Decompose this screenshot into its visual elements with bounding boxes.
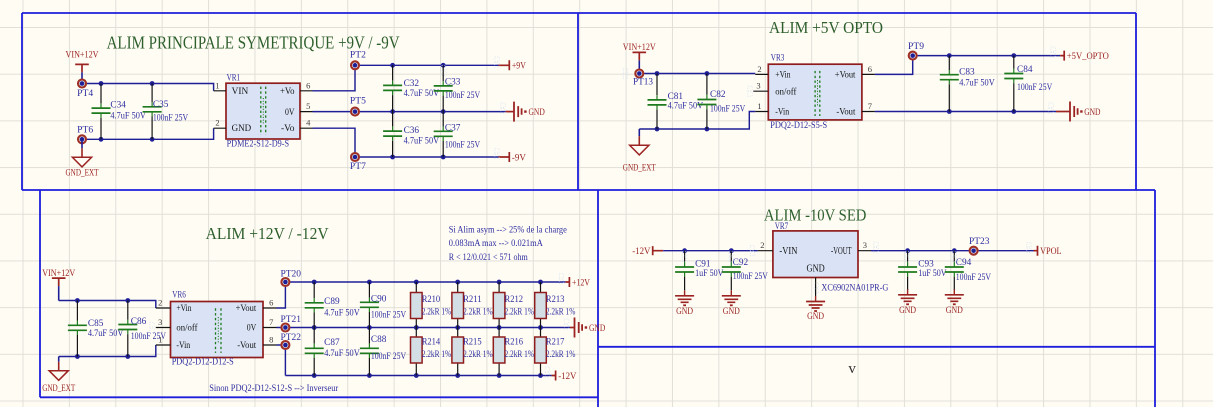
svg-text:+Vin: +Vin	[775, 70, 791, 80]
junction	[75, 298, 80, 303]
svg-text:GND_EXT: GND_EXT	[623, 162, 656, 172]
wire VR1 +Vo to PT2 / +9V rail	[313, 65, 499, 91]
junction	[414, 325, 419, 330]
capacitor C90	[360, 282, 407, 328]
capacitor C85	[68, 301, 124, 357]
junction	[1011, 109, 1016, 114]
capacitor C34	[92, 84, 147, 140]
capacitor C35	[143, 84, 189, 140]
svg-text:+12V: +12V	[572, 277, 590, 287]
svg-text:2.2kR 1%: 2.2kR 1%	[505, 349, 535, 359]
no-ERC mark	[495, 149, 499, 159]
svg-text:100nF 25V: 100nF 25V	[1017, 82, 1053, 92]
test point PT23	[969, 236, 990, 255]
svg-text:100nF 25V: 100nF 25V	[956, 272, 992, 282]
capacitor C84	[1004, 56, 1052, 112]
wire VR7 -VOUT to PT23 / VPOL rail	[871, 250, 1034, 252]
svg-text:3: 3	[158, 317, 162, 327]
svg-text:GND: GND	[807, 263, 825, 274]
test point PT6	[77, 124, 94, 143]
no-ERC mark	[750, 246, 754, 256]
resistor R210	[411, 282, 452, 328]
svg-text:VR1: VR1	[227, 73, 241, 83]
regulator VR6	[156, 289, 277, 366]
wire -12V to VR7 pin 2	[663, 250, 758, 252]
svg-text:4: 4	[306, 118, 311, 128]
svg-text:100nF 25V: 100nF 25V	[371, 310, 407, 320]
svg-text:GND: GND	[232, 124, 252, 134]
svg-text:PT13: PT13	[633, 77, 653, 87]
svg-text:R213: R213	[546, 294, 565, 304]
junction	[655, 71, 660, 76]
junction	[390, 63, 395, 68]
resistor R213	[535, 282, 576, 328]
svg-text:GND: GND	[1084, 107, 1101, 117]
power port -9V	[499, 152, 527, 162]
ground GND (bar symbol)	[1056, 102, 1101, 122]
test point PT5	[350, 96, 367, 116]
svg-text:1: 1	[757, 101, 761, 111]
svg-text:C33: C33	[445, 76, 461, 86]
capacitor C87	[305, 328, 360, 376]
regulator VR3	[753, 53, 875, 131]
ground GND (earth symbol)	[898, 289, 917, 315]
svg-text:100nF 25V: 100nF 25V	[445, 140, 481, 150]
ground GND_EXT	[623, 129, 656, 172]
svg-text:C87: C87	[324, 337, 340, 347]
no-ERC mark	[814, 283, 818, 293]
svg-text:4.7uF 50V: 4.7uF 50V	[324, 307, 360, 317]
svg-text:VIN+12V: VIN+12V	[623, 42, 656, 52]
no-ERC mark	[495, 57, 499, 67]
no-ERC mark	[874, 242, 878, 252]
no-ERC mark	[559, 274, 563, 284]
power port -12V	[632, 246, 663, 256]
junction	[729, 248, 734, 253]
no-ERC mark	[952, 252, 956, 262]
junction	[367, 373, 372, 378]
svg-text:C36: C36	[404, 125, 420, 135]
wire VR3 -Vout / GND rail	[875, 111, 1056, 113]
no-ERC mark	[1049, 103, 1053, 113]
no-ERC mark	[501, 103, 505, 113]
capacitor C86	[118, 301, 166, 357]
power port +9V	[499, 60, 527, 70]
no-ERC mark	[1027, 243, 1031, 253]
junction	[75, 354, 80, 359]
wire VR6 0V to PT21 / GND rail	[277, 327, 571, 329]
capacitor C36	[383, 112, 439, 157]
capacitor C37	[434, 112, 481, 157]
svg-text:C85: C85	[88, 318, 104, 328]
svg-text:4.7uF 50V: 4.7uF 50V	[404, 88, 440, 98]
svg-text:2.2kR 1%: 2.2kR 1%	[546, 307, 576, 317]
svg-text:PT9: PT9	[908, 41, 925, 51]
svg-text:2: 2	[158, 298, 162, 308]
svg-text:+Vo: +Vo	[280, 87, 295, 97]
svg-text:C92: C92	[733, 257, 749, 267]
svg-text:GND: GND	[946, 305, 963, 315]
svg-text:R216: R216	[505, 336, 524, 346]
power port VIN+12V	[623, 42, 656, 73]
junction	[455, 280, 460, 285]
svg-text:100nF 25V: 100nF 25V	[371, 351, 407, 361]
junction	[705, 71, 710, 76]
svg-text:XC6902NA01PR-G: XC6902NA01PR-G	[821, 283, 888, 293]
junction	[497, 280, 502, 285]
resistor R216	[493, 328, 534, 376]
svg-text:Sinon PDQ2-D12-S12-S --> Inver: Sinon PDQ2-D12-S12-S --> Inverseur	[209, 383, 338, 393]
svg-text:+5V_OPTO: +5V_OPTO	[1067, 51, 1109, 61]
svg-text:2.2kR 1%: 2.2kR 1%	[463, 307, 493, 317]
svg-text:100nF 25V: 100nF 25V	[733, 271, 769, 281]
wire bottom rail to VR3 pin 1	[639, 112, 755, 130]
power port VPOL	[1034, 246, 1062, 256]
svg-text:VR3: VR3	[771, 53, 785, 63]
svg-text:C32: C32	[404, 78, 420, 88]
svg-text:0.083mA max --> 0.021mA: 0.083mA max --> 0.021mA	[449, 238, 543, 248]
wire bottom rail PT6 to VR1 pin 2	[82, 128, 214, 139]
svg-text:C83: C83	[959, 66, 975, 76]
svg-text:-Vout: -Vout	[237, 340, 256, 350]
svg-text:2.2kR 1%: 2.2kR 1%	[505, 307, 535, 317]
capacitor C92	[722, 251, 769, 290]
svg-text:PT20: PT20	[281, 268, 302, 278]
svg-text:2: 2	[757, 64, 761, 74]
resistor R212	[493, 282, 534, 328]
svg-text:on/off: on/off	[775, 86, 797, 96]
svg-text:C90: C90	[371, 294, 387, 304]
no-ERC mark	[545, 367, 549, 377]
svg-text:GND: GND	[899, 305, 916, 315]
svg-text:100nF 25V: 100nF 25V	[153, 113, 189, 123]
svg-text:C34: C34	[110, 100, 126, 110]
no-ERC mark	[748, 86, 752, 96]
junction	[455, 325, 460, 330]
svg-text:PT7: PT7	[350, 161, 367, 171]
svg-text:1uF 50V: 1uF 50V	[695, 268, 724, 278]
resistor R214	[411, 328, 452, 376]
test point PT21	[281, 314, 302, 332]
no-ERC mark	[623, 69, 627, 79]
svg-text:C89: C89	[324, 296, 340, 306]
svg-text:GND: GND	[589, 323, 606, 333]
ground GND_EXT	[66, 139, 99, 177]
svg-text:PT5: PT5	[350, 96, 367, 106]
capacitor C33	[434, 65, 481, 111]
svg-text:6: 6	[868, 64, 872, 74]
svg-text:C82: C82	[710, 89, 726, 99]
capacitor C81	[648, 74, 704, 130]
junction	[947, 53, 952, 58]
capacitor C83	[940, 56, 995, 112]
svg-text:R214: R214	[422, 336, 441, 346]
svg-text:GND: GND	[529, 107, 546, 117]
svg-text:2: 2	[760, 240, 764, 250]
test point PT22	[281, 332, 302, 349]
svg-text:VIN+12V: VIN+12V	[66, 50, 99, 60]
svg-text:8: 8	[269, 335, 273, 345]
svg-text:VR7: VR7	[775, 221, 789, 231]
svg-text:R211: R211	[463, 294, 482, 304]
no-ERC mark	[150, 323, 154, 333]
junction	[312, 373, 317, 378]
capacitor C88	[360, 328, 407, 376]
svg-text:7: 7	[269, 317, 273, 327]
no-ERC mark	[905, 252, 909, 262]
capacitor C94	[945, 251, 992, 290]
test point PT7	[350, 153, 367, 171]
junction	[538, 280, 543, 285]
svg-text:-Vo: -Vo	[281, 124, 295, 134]
no-ERC mark	[682, 252, 686, 262]
svg-text:C86: C86	[131, 316, 147, 326]
svg-text:PT21: PT21	[281, 314, 302, 324]
svg-text:C94: C94	[956, 257, 972, 267]
power port -12V	[552, 371, 577, 381]
wire VR3 +Vout to PT9 / +5V_OPTO rail	[875, 56, 1060, 75]
svg-text:GND: GND	[807, 311, 824, 321]
svg-text:100nF 25V: 100nF 25V	[710, 103, 746, 113]
junction	[125, 354, 130, 359]
junction	[682, 248, 687, 253]
wire VR6 +Vout to PT20 / +12V rail	[277, 282, 566, 308]
svg-text:6: 6	[306, 80, 310, 90]
svg-text:2.2kR 1%: 2.2kR 1%	[422, 349, 452, 359]
resistor R217	[535, 328, 576, 376]
junction	[414, 373, 419, 378]
junction	[150, 137, 155, 142]
junction	[538, 325, 543, 330]
power port +5V_OPTO	[1060, 51, 1109, 61]
no-ERC mark	[442, 66, 446, 76]
test point PT20	[281, 268, 302, 286]
power port +12V	[565, 277, 590, 287]
junction	[655, 127, 660, 132]
capacitor C89	[305, 282, 360, 328]
svg-text:+9V: +9V	[512, 61, 526, 71]
test point PT9	[908, 41, 925, 60]
svg-text:PDME2-S12-D9-S: PDME2-S12-D9-S	[227, 138, 290, 148]
svg-text:5: 5	[306, 101, 310, 111]
junction	[455, 373, 460, 378]
junction	[367, 280, 372, 285]
svg-text:7: 7	[868, 101, 872, 111]
junction	[441, 109, 446, 114]
svg-text:v: v	[848, 361, 856, 377]
wire VIN+12V rail to VR3 pin 2	[639, 73, 755, 75]
svg-text:R217: R217	[546, 336, 565, 346]
resistor R211	[452, 282, 493, 328]
wire VIN+12V rail to VR1 pin 1	[82, 84, 214, 91]
junction	[99, 81, 104, 86]
test point PT4	[77, 80, 94, 99]
wire bottom rail to VR6 pin 1	[59, 345, 156, 357]
ground GND (earth symbol)	[675, 290, 694, 316]
junction	[312, 280, 317, 285]
svg-text:GND: GND	[723, 306, 740, 316]
svg-text:PT4: PT4	[77, 88, 94, 98]
svg-text:R212: R212	[505, 294, 524, 304]
svg-text:VPOL: VPOL	[1040, 246, 1062, 256]
power port VIN+12V	[66, 50, 99, 84]
svg-text:4.7uF 50V: 4.7uF 50V	[324, 348, 360, 358]
svg-text:-12V: -12V	[632, 246, 651, 256]
svg-text:R < 12/0.021 < 571 ohm: R < 12/0.021 < 571 ohm	[449, 252, 528, 262]
svg-text:C93: C93	[918, 258, 934, 268]
svg-text:-12V: -12V	[558, 371, 577, 381]
svg-text:on/off: on/off	[176, 323, 198, 333]
junction	[390, 109, 395, 114]
svg-text:4.7uF 50V: 4.7uF 50V	[959, 78, 995, 88]
svg-text:C35: C35	[153, 99, 169, 109]
no-ERC mark	[1051, 47, 1055, 57]
junction	[905, 248, 910, 253]
svg-text:-VIN: -VIN	[779, 246, 798, 257]
ground GND (earth symbol)	[722, 290, 741, 316]
test point PT2	[350, 49, 366, 69]
svg-text:GND_EXT: GND_EXT	[66, 168, 99, 178]
svg-text:1uF 50V: 1uF 50V	[918, 268, 947, 278]
svg-text:C84: C84	[1017, 64, 1033, 74]
op-amp/regulator VR1	[214, 73, 313, 149]
junction	[441, 155, 446, 160]
capacitor C93	[898, 251, 947, 290]
svg-text:2.2kR 1%: 2.2kR 1%	[422, 307, 452, 317]
svg-text:VIN: VIN	[232, 87, 249, 97]
junction	[150, 81, 155, 86]
wire VIN+12V rail to VR6 pin 2	[59, 301, 156, 309]
ground GND (bar symbol)	[570, 318, 606, 338]
svg-text:1: 1	[158, 335, 162, 345]
svg-text:PT22: PT22	[281, 332, 302, 342]
wire VR1 0V to PT5 / GND rail	[313, 111, 506, 113]
junction	[538, 373, 543, 378]
svg-text:2: 2	[215, 118, 219, 128]
svg-text:C88: C88	[371, 334, 387, 344]
svg-text:C37: C37	[445, 123, 461, 133]
svg-text:-Vin: -Vin	[775, 107, 789, 117]
svg-text:3: 3	[756, 81, 760, 91]
svg-text:3: 3	[863, 240, 867, 250]
junction	[390, 155, 395, 160]
ground GND (bar symbol)	[506, 102, 546, 122]
ground GND (earth symbol)	[945, 289, 964, 315]
capacitor C32	[383, 65, 439, 111]
power port VIN+12V	[42, 268, 75, 301]
capacitor C91	[675, 251, 724, 290]
junction	[312, 325, 317, 330]
resistor R215	[452, 328, 493, 376]
capacitor C82	[697, 74, 745, 130]
svg-text:-Vin: -Vin	[176, 340, 190, 350]
svg-text:-Vout: -Vout	[836, 107, 855, 117]
junction	[125, 298, 130, 303]
ground GND (earth symbol)	[806, 283, 825, 321]
svg-text:GND_EXT: GND_EXT	[42, 383, 75, 393]
no-ERC mark	[729, 252, 733, 262]
junction	[414, 280, 419, 285]
svg-text:+Vout: +Vout	[236, 303, 257, 313]
wire VR1 -Vo to PT7 / -9V rail	[313, 128, 499, 157]
svg-text:-VOUT: -VOUT	[831, 246, 852, 257]
svg-text:PDQ2-D12-S5-S: PDQ2-D12-S5-S	[770, 120, 827, 130]
svg-text:4.7uF 50V: 4.7uF 50V	[110, 111, 146, 121]
svg-text:1: 1	[215, 80, 219, 90]
junction	[947, 109, 952, 114]
svg-text:2.2kR 1%: 2.2kR 1%	[546, 349, 576, 359]
svg-text:0V: 0V	[285, 108, 295, 118]
junction	[952, 248, 957, 253]
test point PT13	[633, 70, 653, 87]
svg-text:-9V: -9V	[512, 152, 526, 162]
svg-text:PT2: PT2	[350, 49, 366, 59]
svg-text:PT23: PT23	[969, 236, 990, 246]
svg-text:VIN+12V: VIN+12V	[42, 268, 75, 278]
svg-text:GND: GND	[676, 306, 693, 316]
svg-text:100nF 25V: 100nF 25V	[445, 90, 481, 100]
svg-text:R210: R210	[422, 294, 441, 304]
junction	[705, 127, 710, 132]
svg-text:Si Alim asym --> 25% de la cha: Si Alim asym --> 25% de la charge	[449, 225, 567, 235]
junction	[1011, 53, 1016, 58]
svg-text:PT6: PT6	[77, 124, 94, 134]
junction	[99, 137, 104, 142]
regulator VR7	[758, 221, 889, 292]
svg-text:0V: 0V	[247, 323, 257, 333]
junction	[367, 325, 372, 330]
svg-text:VR6: VR6	[172, 289, 186, 299]
junction	[497, 325, 502, 330]
junction	[497, 373, 502, 378]
svg-text:PDQ2-D12-D12-S: PDQ2-D12-D12-S	[172, 357, 234, 367]
svg-text:ALIM +5V OPTO: ALIM +5V OPTO	[769, 18, 883, 37]
svg-text:+Vout: +Vout	[835, 70, 856, 80]
wire VR6 -Vout to PT22 / -12V rail	[277, 345, 552, 376]
svg-text:2.2kR 1%: 2.2kR 1%	[463, 349, 493, 359]
svg-text:6: 6	[269, 298, 273, 308]
svg-text:+Vin: +Vin	[176, 303, 192, 313]
junction	[441, 63, 446, 68]
no-ERC mark	[564, 319, 568, 329]
svg-text:R215: R215	[463, 336, 482, 346]
svg-text:ALIM +12V / -12V: ALIM +12V / -12V	[206, 224, 330, 243]
ground GND_EXT	[42, 357, 75, 393]
